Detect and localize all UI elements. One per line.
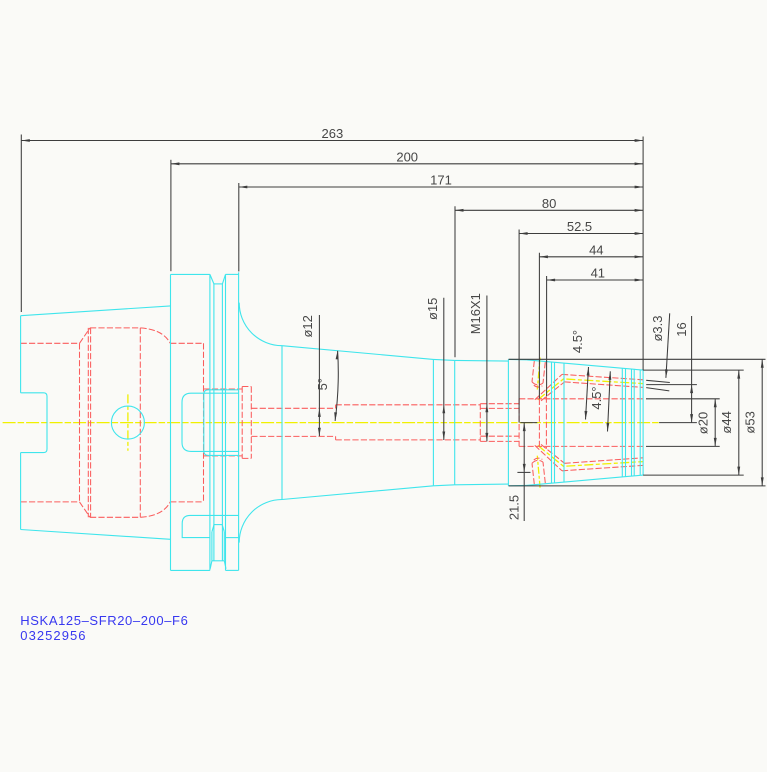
svg-text:44: 44 bbox=[589, 242, 603, 257]
svg-text:ø20: ø20 bbox=[696, 412, 711, 434]
svg-text:4.5°: 4.5° bbox=[589, 386, 604, 409]
svg-text:16: 16 bbox=[674, 322, 689, 336]
svg-text:263: 263 bbox=[322, 126, 344, 141]
svg-text:21.5: 21.5 bbox=[507, 495, 522, 520]
svg-text:5°: 5° bbox=[315, 378, 330, 390]
svg-text:03252956: 03252956 bbox=[20, 628, 86, 643]
svg-text:4.5°: 4.5° bbox=[570, 330, 585, 353]
svg-text:52.5: 52.5 bbox=[567, 219, 592, 234]
svg-text:M16X1: M16X1 bbox=[468, 293, 483, 334]
svg-text:200: 200 bbox=[396, 149, 418, 164]
svg-text:ø3.3: ø3.3 bbox=[650, 315, 665, 341]
svg-text:171: 171 bbox=[430, 173, 452, 188]
svg-text:ø15: ø15 bbox=[425, 298, 440, 320]
svg-text:ø44: ø44 bbox=[719, 411, 734, 433]
svg-text:HSKA125–SFR20–200–F6: HSKA125–SFR20–200–F6 bbox=[20, 613, 188, 628]
svg-text:80: 80 bbox=[542, 196, 556, 211]
svg-text:ø12: ø12 bbox=[300, 315, 315, 337]
svg-text:41: 41 bbox=[591, 266, 605, 281]
svg-text:ø53: ø53 bbox=[742, 411, 757, 433]
